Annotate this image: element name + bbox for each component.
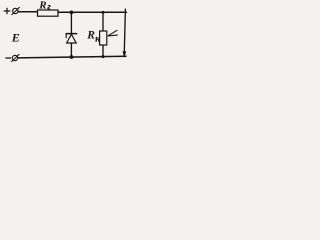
- arrowhead down: [123, 51, 127, 58]
- plus sign: [4, 8, 10, 14]
- terminal (+): [13, 8, 18, 13]
- variable arrow on Rн: [108, 30, 117, 36]
- wire load bottom lead: [102, 45, 104, 57]
- resistor R2 (Rн): [100, 31, 107, 45]
- zener hook: [65, 34, 67, 38]
- svg-text:E: E: [11, 30, 20, 44]
- terminal (-): [12, 55, 17, 60]
- svg-text:R: R: [86, 30, 95, 42]
- resistor R1 (Rг): [38, 10, 59, 16]
- node D (load bottom junction): [102, 55, 105, 58]
- diode VD triangle: [67, 34, 77, 43]
- diode VD (zener) cathode bar: [66, 33, 76, 35]
- wire zener top lead: [70, 12, 72, 33]
- svg-text:R: R: [38, 0, 46, 12]
- label Rн: [86, 30, 100, 44]
- wire right branch with current arrow: [124, 9, 125, 52]
- minus sign: [6, 57, 11, 59]
- paper background: [0, 0, 131, 70]
- node C (zener bottom junction): [70, 55, 74, 59]
- wire top-left: [18, 11, 38, 13]
- svg-text:н: н: [95, 33, 100, 43]
- label Rг: [38, 0, 51, 12]
- wire load top lead: [102, 12, 104, 31]
- node B (load top junction): [102, 11, 105, 14]
- wire zener bottom lead: [70, 43, 72, 57]
- node A (zener top junction): [70, 11, 74, 15]
- wire top: [58, 11, 127, 13]
- wire bottom: [18, 56, 126, 58]
